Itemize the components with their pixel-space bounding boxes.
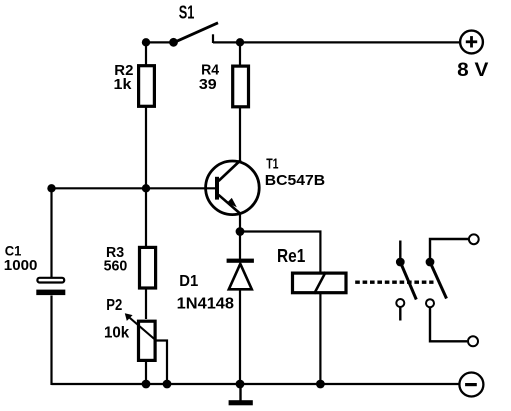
resistor R3 [140,247,156,288]
svg-text:8 V: 8 V [457,59,488,81]
node junction R4/top rail [236,38,244,46]
resistor R2 [139,66,155,107]
wire base rail [52,187,216,189]
relay coil Re1 [293,272,347,294]
wire C1 bottom lead [50,296,52,386]
switch S1 [169,23,218,47]
wire top rail right segment [213,41,460,43]
svg-text:D1: D1 [179,273,198,290]
wire emitter lead [239,213,241,232]
wire R2 top lead [145,42,147,66]
node base rail / left rail [47,184,55,192]
wire R3 to P2 link [145,289,147,319]
node relay bottom junction [316,380,325,389]
relay contact 2 [426,258,447,308]
ground [229,384,253,405]
terminal contact2 bottom [468,336,478,346]
wire R4 top lead [239,42,241,67]
node junction R2/top rail [142,38,150,46]
diode D1 [227,259,254,290]
relay contact 1 [396,258,416,307]
wire R4 bottom lead / collector lead [239,108,241,162]
wire P2 bottom lead [145,362,147,384]
label Re1 [277,246,305,266]
svg-text:BC547B: BC547B [265,172,325,189]
label T1 / BC547B [265,156,325,189]
label R4 / 39 [199,63,220,93]
svg-text:P2: P2 [106,297,122,314]
dashed actuator link [355,281,433,284]
wire bottom rail [52,383,459,385]
potentiometer P2 [125,313,156,360]
wire relay bottom lead [319,293,321,384]
wire diode top lead [239,232,241,261]
capacitor C1 [36,278,65,295]
label D1 / 1N4148 [177,273,235,313]
wire R2 bottom lead [145,107,147,189]
wire contact1 bottom stub [399,308,401,321]
svg-text:1000: 1000 [4,257,38,274]
wire emitter node to relay [240,232,320,273]
wire left rail C1 top lead [50,188,52,277]
wire diode bottom lead [239,288,241,384]
node emitter junction [236,227,245,236]
label 8 V [457,59,488,81]
wire contact2 top lead [430,239,469,260]
svg-text:1k: 1k [114,77,133,93]
label S1 [179,1,195,22]
label C1 / 1000 [4,243,38,274]
svg-text:39: 39 [199,77,217,93]
wire R3 top lead [145,188,147,247]
wire contact2 bottom lead [430,308,467,342]
wire P2 wiper lead [155,341,168,385]
svg-text:Re1: Re1 [277,246,305,266]
node P2 bottom junction [142,380,151,389]
label R3 / 560 [104,245,128,275]
svg-text:S1: S1 [179,1,195,22]
resistor R4 [233,66,249,107]
node base rail / R3 [142,184,150,192]
svg-text:10k: 10k [104,325,130,342]
node diode/ground junction [236,380,245,389]
terminal +8V [460,31,483,54]
svg-text:560: 560 [104,257,128,274]
label R2 / 1k [114,63,134,93]
transistor T1 [206,160,260,215]
label P2 / 10k [104,297,130,342]
svg-text:T1: T1 [266,156,278,173]
terminal contact2 top [469,234,479,244]
svg-text:1N4148: 1N4148 [177,296,235,313]
node wiper junction [163,380,172,389]
wire contact1 top stub [399,241,401,260]
wire top rail left segment [146,41,174,43]
terminal minus [459,373,483,397]
